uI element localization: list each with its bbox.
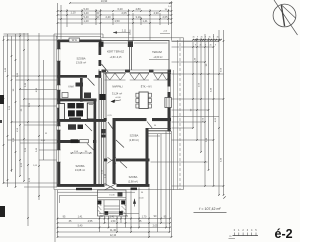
terrace-living wall: [102, 70, 107, 73]
wall above bath: [57, 99, 96, 102]
svg-text:2,11: 2,11: [122, 29, 127, 32]
wall top szoba1: [57, 40, 101, 43]
svg-text:2,40: 2,40: [105, 15, 111, 19]
svg-text:TERASZ: TERASZ: [152, 51, 162, 54]
szoba1 door diagonal: [102, 64, 109, 73]
szoba2 south window: [76, 188, 92, 190]
svg-text:KAM: KAM: [68, 86, 73, 89]
wall left outer: [57, 40, 60, 187]
szoba1 door arc: [88, 78, 95, 86]
terrace divider: [129, 47, 131, 70]
svg-text:±0,00: ±0,00: [139, 198, 145, 200]
left dimension ticks: [3, 39, 5, 41]
eave outline: [54, 33, 103, 35]
bottom line 213: [99, 213, 139, 215]
svg-text:6,20: 6,20: [117, 7, 123, 11]
bottom ticks: [57, 218, 59, 220]
north compass circle: [273, 4, 296, 27]
right dimension ticks: [192, 46, 194, 48]
living right wall: [168, 73, 171, 87]
porch step lines: [98, 197, 127, 199]
compass long diagonal: [274, 0, 298, 35]
entry cabinet blob: [118, 192, 123, 196]
svg-text:1,50: 1,50: [111, 220, 116, 223]
top dimension lines: [70, 2, 172, 4]
top dimension inner verticals: [81, 9, 83, 25]
compass needle: [281, 5, 284, 26]
svg-text:2,05: 2,05: [162, 15, 168, 19]
svg-text:SZOBA: SZOBA: [76, 57, 85, 61]
svg-text:1,50: 1,50: [114, 19, 120, 23]
corridor bottom wall: [57, 140, 85, 143]
svg-text:NAPPALI: NAPPALI: [112, 86, 123, 89]
bath fixtures: [68, 103, 76, 108]
svg-text:45: 45: [209, 44, 211, 46]
svg-text:SZOBA: SZOBA: [129, 175, 138, 179]
bottom wall: [57, 184, 104, 187]
left top connector: [4, 33, 29, 35]
b2 south window: [131, 188, 138, 191]
svg-text:5,40: 5,40: [83, 7, 89, 11]
svg-text:10,90: 10,90: [101, 0, 108, 3]
svg-text:2,05: 2,05: [121, 11, 127, 15]
svg-text:1,41: 1,41: [142, 19, 148, 23]
szoba1 bottom wall: [57, 75, 87, 78]
svg-text:1,70: 1,70: [142, 216, 147, 219]
porch outline: [98, 190, 127, 216]
left extension lines: [4, 35, 58, 37]
scan blob 2: [0, 206, 5, 217]
porch hatch right: [122, 206, 126, 210]
kozl room marks: [68, 124, 76, 129]
corridor door diagonals: [87, 143, 94, 150]
shaft black marks: [102, 129, 106, 134]
living bottom wall: [104, 118, 107, 121]
left dimension verticals: [3, 36, 5, 183]
b1 left wall: [113, 118, 116, 184]
svg-text:(2,98 m²): (2,98 m²): [128, 180, 138, 183]
divider door X: [108, 157, 117, 163]
bottom extension verticals: [54, 190, 56, 242]
b1 b2 divider: [104, 159, 107, 162]
svg-text:4,30: 4,30: [153, 11, 159, 15]
chairs: [136, 93, 139, 97]
svg-text:W W: W W: [72, 39, 78, 42]
scan blob 1: [0, 95, 4, 104]
svg-text:45: 45: [192, 36, 194, 38]
svg-text:3,10: 3,10: [135, 15, 141, 19]
corridor wall blocks: [71, 139, 79, 143]
svg-text:15x30: 15x30: [109, 195, 115, 197]
svg-text:12,10: 12,10: [110, 234, 117, 237]
svg-text:2,05: 2,05: [153, 225, 158, 228]
terrace right edge: [168, 41, 170, 73]
terrace inner line: [149, 58, 169, 60]
divider door: [120, 162, 127, 169]
entry arrow: [133, 199, 136, 204]
wall plate label: [69, 38, 80, 42]
level arrow symbol: [111, 99, 116, 103]
svg-text:31,24 m²: 31,24 m²: [112, 91, 122, 95]
svg-text:1,20: 1,20: [83, 19, 89, 23]
svg-text:13,06 m²: 13,06 m²: [76, 61, 86, 65]
radiator box: [165, 98, 171, 108]
svg-text:(2,98 m²): (2,98 m²): [129, 139, 139, 142]
svg-text:1,41: 1,41: [78, 216, 83, 219]
svg-text:±0,00: ±0,00: [115, 97, 121, 99]
svg-text:SZOBA: SZOBA: [130, 134, 139, 138]
window sill V marks: [105, 72, 126, 74]
lower right outer wall: [146, 128, 149, 187]
svg-text:m: m: [229, 235, 231, 238]
scan blob 3: [0, 120, 2, 123]
door from living: [108, 122, 115, 132]
svg-text:11,40: 11,40: [110, 229, 117, 232]
svg-text:5,40: 5,40: [83, 15, 89, 19]
svg-text:é-2: é-2: [275, 227, 293, 241]
top dimension ticks: [57, 10, 59, 12]
bottom dimension lines: [58, 218, 171, 220]
porch hatch left: [98, 206, 102, 210]
svg-text:3,40: 3,40: [83, 11, 89, 15]
shaft chimney black: [100, 94, 106, 100]
kam fixtures: [76, 83, 84, 87]
window marks left wall: [57, 49, 61, 61]
scale bar: [233, 235, 259, 237]
svg-text:9: 9: [215, 44, 216, 46]
shaft walls: [98, 70, 100, 187]
kam room walls: [80, 78, 83, 102]
svg-text:+0,60 -0,15: +0,60 -0,15: [110, 57, 122, 59]
svg-text:5,40: 5,40: [78, 225, 83, 228]
dining table: [139, 92, 148, 109]
szoba2 dim line: [70, 152, 92, 154]
b1 door arc: [116, 140, 124, 148]
right dimension verticals: [192, 42, 194, 128]
svg-text:4,80: 4,80: [135, 7, 141, 11]
shaft lower: [103, 122, 105, 187]
lower eave steps: [58, 191, 136, 193]
terrace pillar 1: [128, 41, 133, 47]
dashed boundary: [179, 38, 181, 190]
svg-text:ÉTK.—NY.: ÉTK.—NY.: [141, 85, 153, 88]
terrace top edge: [102, 40, 170, 42]
step corner wall: [146, 127, 172, 129]
svg-text:9: 9: [195, 44, 196, 46]
szoba1 right wall: [99, 43, 102, 56]
svg-text:KERT TERASZ: KERT TERASZ: [107, 51, 125, 54]
terrace pillar 0: [99, 42, 104, 47]
right extension lines: [172, 40, 220, 42]
upper-right ticks: [192, 39, 194, 41]
svg-text:SZOBA: SZOBA: [75, 164, 84, 168]
porch pillars: [98, 201, 102, 205]
svg-text:+0,60 m²: +0,60 m²: [153, 56, 162, 59]
svg-text:1,10: 1,10: [70, 11, 76, 15]
top dimension end verticals: [57, 3, 59, 39]
svg-text:13,08 m²: 13,08 m²: [75, 168, 85, 172]
svg-text:1,41: 1,41: [110, 216, 115, 219]
dim arrow 2,11: [113, 32, 130, 34]
compass chord: [281, 5, 296, 19]
upper-right dimension lines: [193, 39, 221, 41]
svg-text:4,55: 4,55: [88, 220, 93, 223]
bath right wall: [94, 99, 97, 187]
svg-text:45: 45: [216, 36, 218, 38]
svg-text:f = 107,42 m²: f = 107,42 m²: [199, 207, 221, 211]
entry door X: [105, 184, 117, 191]
wall below bath: [57, 119, 106, 122]
